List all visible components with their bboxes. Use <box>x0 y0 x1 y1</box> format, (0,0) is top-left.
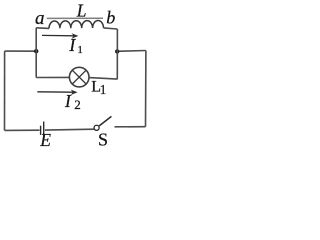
wire lamp branch right lead <box>89 78 117 80</box>
current arrow I1 line <box>42 34 74 36</box>
wire left stub from left junction to outer loop <box>5 50 37 52</box>
node left junction dot <box>34 49 38 53</box>
wire right outer vertical <box>145 51 147 127</box>
wire lamp branch left lead <box>36 76 69 78</box>
wire left outer vertical <box>4 51 6 130</box>
inductor L right lead <box>104 28 118 29</box>
switch S lever <box>99 116 111 126</box>
wire top-right stub to right junction <box>117 50 146 53</box>
current arrow I1 head <box>72 33 79 38</box>
current arrow I2 line <box>37 91 73 93</box>
switch S pivot circle <box>94 125 99 130</box>
node right junction dot <box>115 49 119 53</box>
svg-text:E: E <box>39 130 51 148</box>
inductor L core bar <box>47 17 103 19</box>
wire right inner vertical <box>116 29 118 79</box>
lamp L1 circle <box>69 67 89 87</box>
svg-text:I: I <box>68 35 76 55</box>
svg-text:1: 1 <box>100 82 107 97</box>
battery E long plate <box>43 122 45 139</box>
inductor L left lead <box>36 27 49 30</box>
wire bottom-left to battery <box>5 129 40 131</box>
svg-text:L: L <box>76 1 87 21</box>
wire switch to bottom-right corner <box>115 126 146 128</box>
current arrow I2 head <box>71 90 78 95</box>
svg-text:I: I <box>64 91 72 111</box>
wire left inner vertical <box>35 28 37 78</box>
wire battery to switch <box>45 128 94 131</box>
inductor L coil <box>49 21 104 29</box>
svg-text:b: b <box>106 8 115 28</box>
svg-text:2: 2 <box>74 97 81 112</box>
svg-text:a: a <box>35 8 45 29</box>
svg-text:S: S <box>98 129 108 148</box>
battery E short plate <box>40 126 42 135</box>
svg-text:1: 1 <box>77 44 83 56</box>
lamp L1 cross <box>72 70 86 84</box>
